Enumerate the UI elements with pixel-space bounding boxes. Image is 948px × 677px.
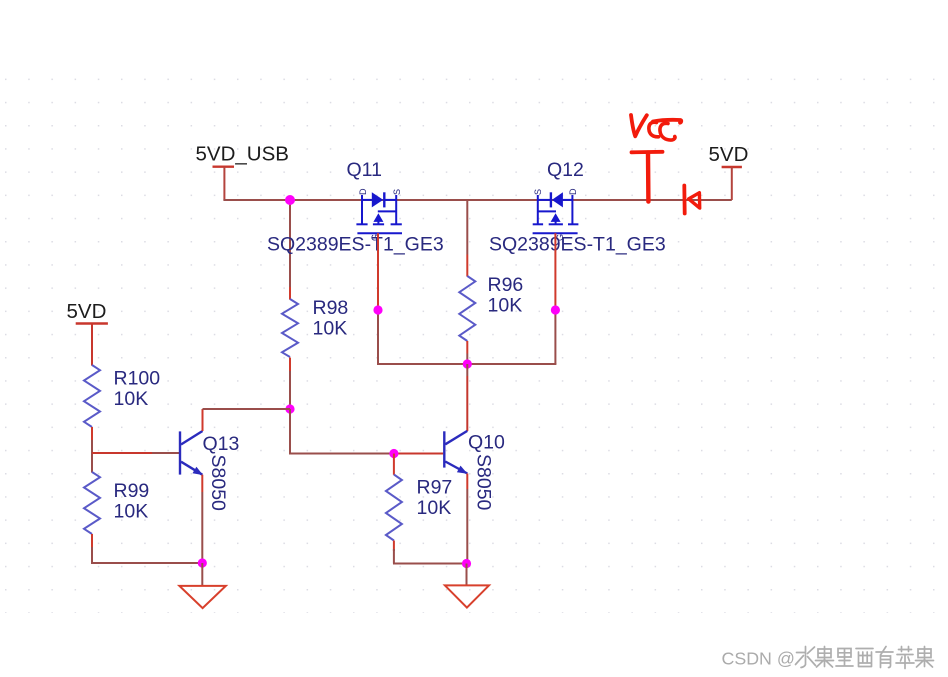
- svg-text:R96: R96: [488, 274, 524, 296]
- label R97 value: [417, 477, 453, 520]
- ground symbol left: [179, 586, 225, 608]
- svg-text:D: D: [358, 188, 368, 195]
- annotation capacitor/T mark: [632, 152, 663, 202]
- wire R97 drop: [393, 454, 395, 475]
- svg-text:10K: 10K: [114, 501, 149, 523]
- svg-text:10K: 10K: [313, 318, 348, 340]
- svg-text:S: S: [533, 189, 543, 195]
- svg-text:Q11: Q11: [347, 159, 382, 181]
- resistor R98: [282, 299, 298, 357]
- char mian: [856, 649, 873, 667]
- junction dot Q11 gate: [373, 305, 382, 314]
- svg-text:10K: 10K: [114, 388, 149, 410]
- wire ground stem left: [201, 563, 203, 586]
- svg-text:Q12: Q12: [547, 159, 584, 181]
- svg-text:R100: R100: [114, 368, 161, 390]
- char ping: [896, 647, 914, 669]
- wire base row to Q10: [289, 409, 443, 454]
- label R99 value: [114, 480, 150, 523]
- resistor R99: [84, 472, 100, 534]
- resistor R100: [84, 365, 100, 427]
- wire Q13 collector: [203, 409, 291, 431]
- wire R100 to base node: [91, 427, 93, 473]
- junction dot Q13 emitter ground: [198, 558, 207, 567]
- junction dot top bus: [285, 195, 295, 205]
- svg-text:S8050: S8050: [207, 455, 229, 512]
- wire 5VD_USB stem: [223, 167, 225, 200]
- wire Q11 gate drop: [377, 233, 467, 364]
- junction dot Q10 emitter ground: [462, 559, 471, 568]
- junction dot R97 top: [389, 449, 398, 458]
- svg-text:SQ2389ES-T1_GE3: SQ2389ES-T1_GE3: [267, 234, 444, 256]
- svg-text:Q13: Q13: [203, 433, 240, 455]
- ground symbol right: [445, 585, 489, 607]
- power symbol 5VD left bar: [76, 322, 108, 324]
- wire main top bus: [223, 199, 731, 201]
- wire ground stem right: [466, 564, 468, 586]
- label R96 value: [488, 274, 524, 317]
- char guo2: [916, 647, 934, 668]
- junction dot R98 bottom: [285, 404, 294, 413]
- watermark chinese characters: [796, 647, 934, 669]
- wire R98 column upper: [289, 200, 291, 300]
- transistor Q10 S8050: [444, 431, 467, 474]
- wire Q10 emitter: [466, 474, 468, 564]
- junction dot center net: [463, 359, 472, 368]
- wire R96 column upper: [466, 200, 468, 277]
- svg-text:R99: R99: [114, 480, 150, 502]
- svg-text:5VD_USB: 5VD_USB: [196, 143, 289, 166]
- transistor Q11 (P-MOSFET): [356, 192, 402, 233]
- svg-text:5VD: 5VD: [709, 143, 749, 166]
- power symbol 5VD right bar: [722, 166, 742, 168]
- char li: [836, 649, 853, 667]
- svg-text:10K: 10K: [488, 295, 523, 317]
- svg-text:S: S: [392, 189, 402, 195]
- annotation Vcc handwriting: [631, 115, 681, 140]
- label R98 value: [313, 297, 349, 340]
- wire R97 bottom to ground row: [393, 541, 467, 564]
- resistor R97: [386, 475, 402, 541]
- svg-text:R97: R97: [417, 477, 453, 499]
- resistor R96: [459, 276, 475, 341]
- wire Q13 emitter: [201, 475, 203, 563]
- label R100 value: [114, 368, 161, 411]
- wire Q13 base: [92, 452, 179, 454]
- char shui: [796, 647, 816, 668]
- svg-text:D: D: [568, 188, 578, 195]
- svg-text:SQ2389ES-T1_GE3: SQ2389ES-T1_GE3: [489, 234, 666, 256]
- char guo: [816, 647, 834, 668]
- wire R98 column lower: [289, 358, 291, 410]
- svg-text:CSDN @: CSDN @: [722, 648, 795, 668]
- svg-text:10K: 10K: [417, 497, 452, 519]
- wire R96 column lower: [466, 341, 468, 364]
- power symbol 5VD_USB bar: [213, 165, 235, 167]
- Q13 emitter arrow: [193, 467, 204, 475]
- wire 5VD left stem: [91, 324, 93, 366]
- svg-text:R98: R98: [313, 297, 349, 319]
- Q10 emitter arrow: [457, 466, 468, 474]
- junction dot Q12 gate: [551, 305, 560, 314]
- annotation diode mark: [684, 186, 699, 214]
- svg-text:S8050: S8050: [473, 454, 495, 511]
- transistor Q12 (P-MOSFET mirrored): [533, 192, 579, 233]
- wire Q12 gate drop: [467, 233, 556, 364]
- svg-text:Q10: Q10: [468, 432, 505, 454]
- transistor Q13 S8050: [180, 431, 203, 475]
- wire R99 bottom to ground row: [91, 534, 202, 563]
- char you: [876, 647, 893, 668]
- wire 5VD right stem: [731, 167, 733, 200]
- svg-text:5VD: 5VD: [67, 300, 107, 323]
- wire center net to Q10 collector: [466, 364, 468, 431]
